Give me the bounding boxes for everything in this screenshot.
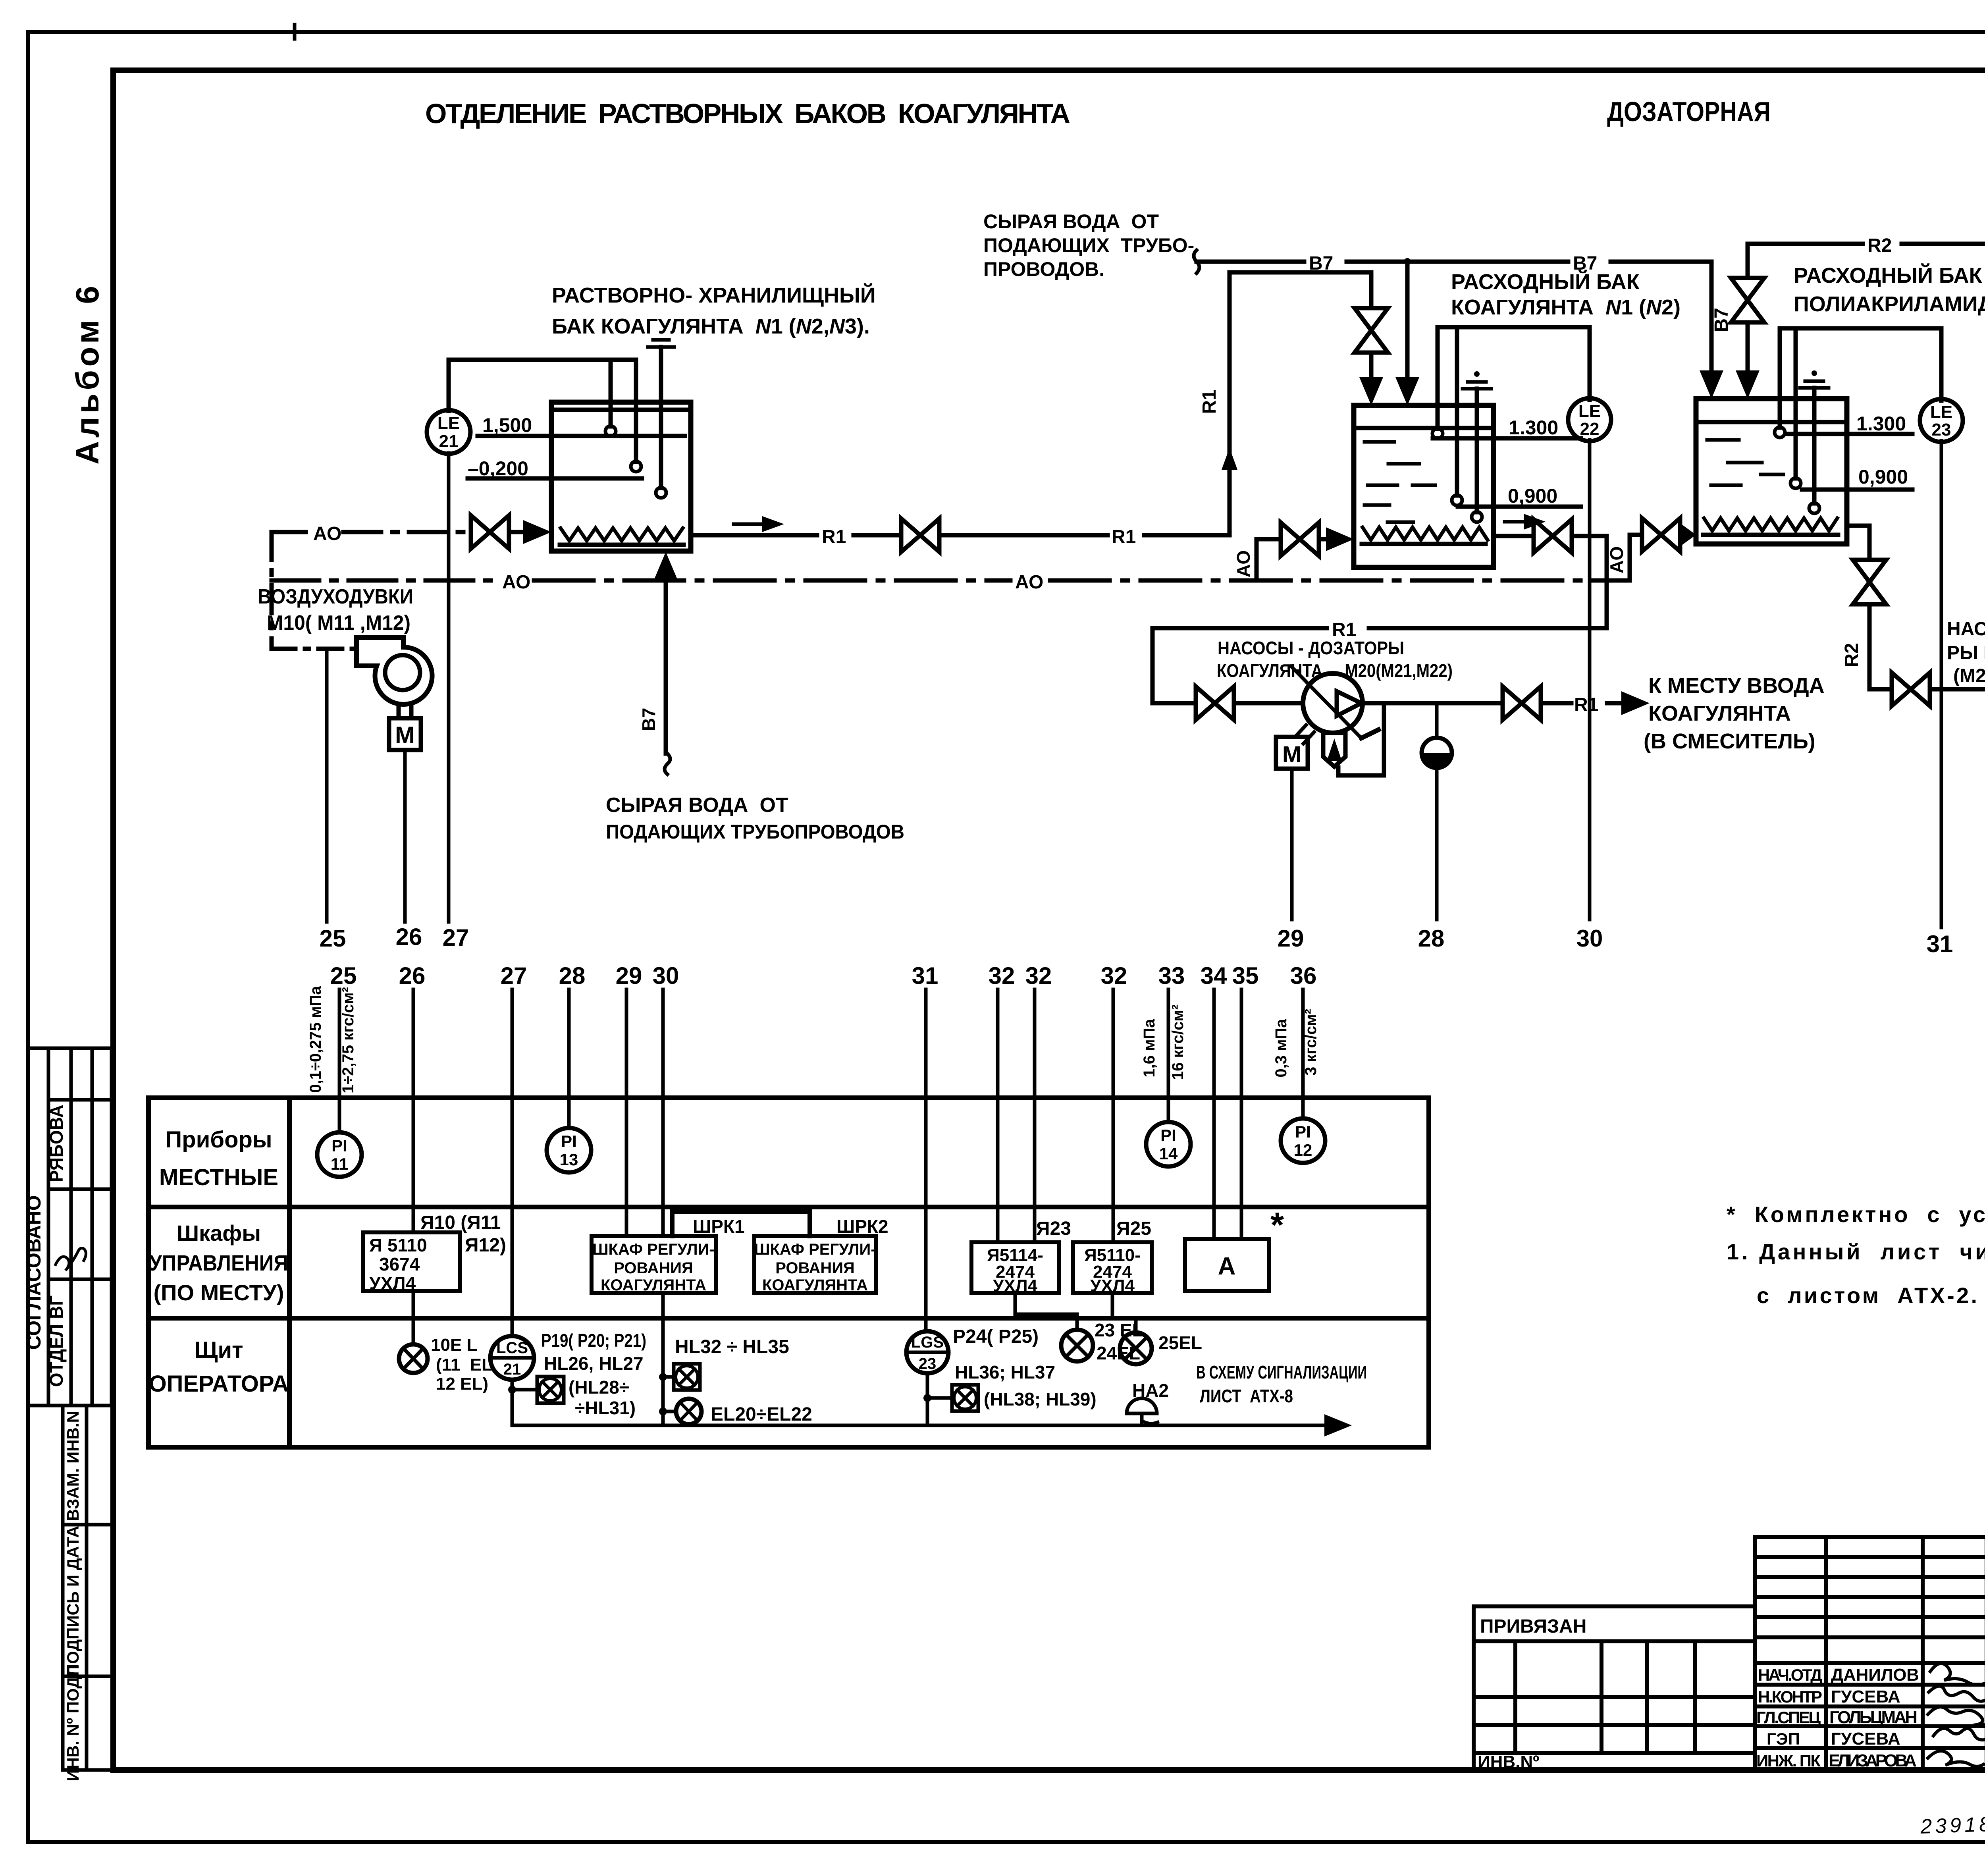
tank T1 rim line bbox=[551, 408, 691, 412]
regulator cabinet ШРК2 box bbox=[754, 1236, 876, 1293]
table frame bbox=[148, 1098, 1429, 1447]
tank T2 perforated distributor bbox=[1363, 527, 1488, 540]
svg-text:ПОДПИСЬ И ДАТА: ПОДПИСЬ И ДАТА bbox=[64, 1526, 82, 1676]
signal stub 31 bbox=[924, 989, 928, 1331]
привязан box bbox=[1474, 1606, 1755, 1770]
svg-text:23918-06: 23918-06 bbox=[1919, 1811, 1985, 1838]
svg-text:Я25: Я25 bbox=[1116, 1218, 1151, 1239]
svg-text:УПРАВЛЕНИЯ: УПРАВЛЕНИЯ bbox=[149, 1250, 288, 1275]
svg-text:СЫРАЯ ВОДА ОТ: СЫРАЯ ВОДА ОТ bbox=[983, 210, 1159, 233]
svg-text:ГЛ.СПЕЦ: ГЛ.СПЕЦ bbox=[1756, 1708, 1821, 1727]
svg-text:R1: R1 bbox=[822, 526, 846, 548]
svg-text:P24( P25): P24( P25) bbox=[953, 1326, 1039, 1347]
svg-text:Альбом 6: Альбом 6 bbox=[69, 286, 106, 465]
flow arrow bbox=[734, 523, 766, 526]
valve on tank2 top feed bbox=[1355, 308, 1388, 353]
signal stub 33 bbox=[1167, 989, 1170, 1122]
svg-text:М: М bbox=[1282, 742, 1301, 767]
tank T2 water line bbox=[1354, 426, 1494, 430]
valve R1 line bbox=[901, 519, 939, 552]
svg-text:ШРК1: ШРК1 bbox=[693, 1216, 745, 1237]
svg-text:ГУСЕВА: ГУСЕВА bbox=[1831, 1729, 1900, 1749]
svg-text:ВЗАМ. ИНВ.N: ВЗАМ. ИНВ.N bbox=[64, 1411, 82, 1521]
signal line 25 bbox=[325, 649, 329, 922]
pipe to pump M20 bbox=[1237, 701, 1303, 706]
svg-text:16 кгс/см²: 16 кгс/см² bbox=[1169, 1005, 1187, 1080]
svg-text:АО: АО bbox=[1606, 546, 1627, 573]
svg-text:ИНВ. Nº ПОДЛ: ИНВ. Nº ПОДЛ bbox=[64, 1665, 82, 1781]
signature squiggle left stamp bbox=[56, 1248, 86, 1271]
tank2 outlet pipe bbox=[1494, 534, 1530, 538]
tank T3 water line bbox=[1696, 420, 1847, 424]
level switch LCS21 bbox=[490, 1336, 534, 1380]
svg-text:ДАНИЛОВ: ДАНИЛОВ bbox=[1831, 1665, 1919, 1685]
svg-text:R1: R1 bbox=[1199, 389, 1220, 414]
junction dot bbox=[508, 1386, 516, 1394]
svg-text:РАСХОДНЫЙ БАК: РАСХОДНЫЙ БАК bbox=[1794, 263, 1983, 287]
blower motor stem bbox=[397, 706, 401, 718]
pressure tap ball 28 bbox=[1435, 703, 1439, 738]
svg-text:КОАГУЛЯНТА N1 (N2): КОАГУЛЯНТА N1 (N2) bbox=[1451, 295, 1681, 319]
AO main header (dash-dot) bbox=[272, 578, 497, 583]
signal stub 25 bbox=[338, 989, 341, 1132]
pipe R1 to riser bbox=[1144, 533, 1230, 538]
wire Я5114 to lamp 23EL bbox=[1015, 1293, 1077, 1330]
svg-text:28: 28 bbox=[1418, 925, 1445, 952]
svg-text:ШКАФ РЕГУЛИ-: ШКАФ РЕГУЛИ- bbox=[592, 1241, 714, 1258]
svg-text:29: 29 bbox=[616, 962, 642, 989]
svg-text:ПОДАЮЩИХ ТРУБОПРОВОДОВ: ПОДАЮЩИХ ТРУБОПРОВОДОВ bbox=[606, 821, 904, 843]
left margin stamp upper group box bbox=[28, 1048, 112, 1406]
valve M20 discharge bbox=[1503, 686, 1541, 720]
pump M20 leader slash bbox=[1291, 666, 1361, 738]
arrow into tank3 left bbox=[1681, 524, 1696, 546]
lamp 10EL bbox=[399, 1344, 428, 1373]
svg-text:КОАГУЛЯНТА М20(М21,М22): КОАГУЛЯНТА М20(М21,М22) bbox=[1217, 660, 1453, 681]
svg-text:EL20÷EL22: EL20÷EL22 bbox=[711, 1404, 812, 1425]
svg-text:Я23: Я23 bbox=[1036, 1218, 1071, 1239]
svg-text:ВОЗДУХОДУВКИ: ВОЗДУХОДУВКИ bbox=[258, 585, 413, 608]
svg-text:12 EL): 12 EL) bbox=[436, 1374, 488, 1394]
svg-text:КОАГУЛЯНТА: КОАГУЛЯНТА bbox=[1648, 702, 1791, 725]
svg-text:(11 EL: (11 EL bbox=[436, 1355, 492, 1375]
svg-text:1.300: 1.300 bbox=[1509, 416, 1558, 439]
vertical AO dash-dot at far left bbox=[270, 532, 274, 649]
svg-text:ОТДЕЛ ВГ: ОТДЕЛ ВГ bbox=[46, 1296, 67, 1387]
svg-text:1.300: 1.300 bbox=[1856, 413, 1906, 435]
svg-text:В7: В7 bbox=[1711, 308, 1732, 332]
svg-text:А: А bbox=[1218, 1253, 1236, 1280]
pipe R1 bbox=[942, 533, 1108, 538]
svg-text:АО: АО bbox=[1233, 550, 1254, 577]
wire LCS21 down bbox=[511, 1380, 514, 1425]
level transmitter LE21 bbox=[427, 410, 470, 454]
electrode rod1 tank2 bbox=[1436, 327, 1440, 429]
pipe B7 bbox=[1197, 260, 1304, 264]
svg-text:НАСОСЫ-ДОЗАТО-: НАСОСЫ-ДОЗАТО- bbox=[1947, 619, 1985, 640]
B7 pipe start tick bbox=[1194, 250, 1199, 273]
svg-text:22: 22 bbox=[1580, 419, 1600, 439]
signal line 28 bbox=[1435, 768, 1439, 920]
blower M10 volute bbox=[357, 638, 432, 704]
signal stub 27 bbox=[511, 989, 514, 1336]
pipe B7 vertical tank1 bbox=[664, 576, 668, 754]
gauge PI11 bbox=[317, 1132, 362, 1177]
lamp 25EL bbox=[1120, 1332, 1152, 1364]
svg-text:LE: LE bbox=[437, 413, 460, 433]
wire box to lamp 10EL bbox=[412, 1291, 415, 1344]
svg-text:27: 27 bbox=[443, 924, 469, 951]
valve tank2 outlet bbox=[1534, 519, 1572, 553]
pipe R2 header bbox=[1748, 242, 1863, 246]
arrow into tank2 left bbox=[1326, 527, 1354, 551]
level transmitter LE22 bbox=[1588, 327, 1592, 400]
svg-text:R1: R1 bbox=[1112, 526, 1136, 548]
signal line 26 bbox=[403, 750, 407, 922]
arrow into tank1 bbox=[523, 520, 551, 544]
svg-text:ЛИСТ АТХ-8: ЛИСТ АТХ-8 bbox=[1200, 1386, 1293, 1406]
gauge PI14 bbox=[1146, 1122, 1191, 1166]
svg-text:26: 26 bbox=[396, 924, 422, 950]
junction dot B7 branch bbox=[1404, 258, 1411, 265]
svg-text:* Комплектно с установкой: * Комплектно с установкой ПАА. bbox=[1727, 1202, 1985, 1227]
pump M20 motor stem bbox=[1295, 725, 1306, 737]
svg-text:ПОДАЮЩИХ ТРУБО-: ПОДАЮЩИХ ТРУБО- bbox=[983, 234, 1194, 256]
signal stub 34 bbox=[1212, 989, 1216, 1239]
box A bbox=[1185, 1239, 1269, 1291]
valve AO tank3 bbox=[1642, 518, 1680, 551]
svg-text:26: 26 bbox=[399, 962, 426, 989]
svg-text:ОТДЕЛЕНИЕ РАСТВОРНЫХ БАКОВ: ОТДЕЛЕНИЕ РАСТВОРНЫХ БАКОВ КОАГУЛЯНТА bbox=[425, 98, 1070, 129]
svg-text:КОАГУЛЯНТА: КОАГУЛЯНТА bbox=[601, 1276, 706, 1294]
level switch LGS23 bbox=[906, 1331, 948, 1373]
svg-text:32: 32 bbox=[989, 962, 1015, 989]
signal line 29 bbox=[1290, 769, 1294, 920]
svg-text:21: 21 bbox=[503, 1361, 521, 1378]
svg-text:35: 35 bbox=[1232, 962, 1259, 989]
svg-text:РЯБОВА: РЯБОВА bbox=[46, 1105, 67, 1182]
svg-text:0,900: 0,900 bbox=[1508, 485, 1557, 507]
R1 riser to tank2 top bbox=[1230, 272, 1371, 535]
electrode rod3 tank3 bbox=[1812, 388, 1817, 503]
AO branch to tank2 bbox=[1257, 539, 1278, 580]
operator bus bbox=[512, 1424, 1326, 1427]
svg-text:(ПО МЕСТУ): (ПО МЕСТУ) bbox=[154, 1280, 284, 1305]
svg-text:ГОЛЬЦМАН: ГОЛЬЦМАН bbox=[1829, 1708, 1918, 1727]
svg-text:32: 32 bbox=[1025, 962, 1052, 989]
signal line 27 from LE21 bbox=[447, 453, 451, 922]
R1 suction header bbox=[1152, 626, 1327, 630]
signal stub 30 bbox=[661, 989, 665, 1236]
pipe AO tank1 feed (dash-dot) bbox=[272, 530, 306, 534]
svg-text:ГЭП: ГЭП bbox=[1767, 1729, 1800, 1748]
motor box M pump M20 bbox=[1276, 737, 1308, 769]
svg-text:PI: PI bbox=[561, 1132, 577, 1151]
lamp HL36 square bbox=[952, 1385, 978, 1411]
svg-text:Я10 (Я11: Я10 (Я11 bbox=[420, 1212, 501, 1233]
electrode rod 2 tank1 bbox=[634, 360, 638, 462]
electrode rod2 tank2 bbox=[1455, 327, 1459, 496]
svg-text:1. Данный лист читать совме: 1. Данный лист читать совместно bbox=[1727, 1239, 1985, 1264]
gauge PI13 bbox=[547, 1128, 591, 1172]
svg-text:0,900: 0,900 bbox=[1858, 466, 1908, 488]
svg-text:Я12): Я12) bbox=[465, 1235, 506, 1256]
svg-text:25EL: 25EL bbox=[1158, 1332, 1202, 1353]
header drop to pump suction bbox=[1152, 628, 1193, 703]
bus arrow bbox=[1324, 1414, 1352, 1436]
svg-text:ДОЗАТОРНАЯ: ДОЗАТОРНАЯ bbox=[1607, 96, 1771, 127]
valve tank1 inlet bbox=[471, 515, 509, 549]
gauge PI12 bbox=[1281, 1118, 1325, 1163]
svg-text:0,3 мПа: 0,3 мПа bbox=[1272, 1019, 1290, 1078]
svg-text:(HL38; HL39): (HL38; HL39) bbox=[984, 1389, 1097, 1409]
svg-text:РОВАНИЯ: РОВАНИЯ bbox=[614, 1259, 693, 1277]
bypass loop M20 bbox=[1338, 703, 1384, 775]
pipe to R1 header bbox=[1575, 536, 1607, 628]
wire LE21 to electrode header bbox=[447, 360, 451, 411]
svg-text:25: 25 bbox=[330, 962, 357, 989]
svg-text:РАСТВОРНО- ХРАНИЛИЩНЫЙ: РАСТВОРНО- ХРАНИЛИЩНЫЙ bbox=[552, 283, 876, 307]
bracket ШРК1-ШРК2 bbox=[672, 1212, 810, 1236]
pipe into tank1 bbox=[512, 530, 528, 534]
control box Я5114-2474 bbox=[971, 1242, 1059, 1293]
svg-text:23: 23 bbox=[1932, 420, 1951, 440]
wire Я5110 to lamp 25EL bbox=[1112, 1293, 1136, 1332]
svg-text:Щит: Щит bbox=[194, 1337, 243, 1363]
blower suction line dash-dot bbox=[272, 647, 357, 651]
svg-text:РАСХОДНЫЙ БАК: РАСХОДНЫЙ БАК bbox=[1451, 270, 1640, 294]
tank T3 perforated distributor bbox=[1704, 518, 1837, 531]
B7 feed to tank1 bottom: tick bbox=[665, 754, 670, 774]
svg-text:12: 12 bbox=[1294, 1141, 1312, 1159]
tank T2 water dashes bbox=[1364, 442, 1435, 522]
svg-text:36: 36 bbox=[1290, 962, 1317, 989]
svg-text:R2: R2 bbox=[1841, 643, 1862, 667]
branch B7 to tank2 bbox=[1405, 262, 1410, 378]
signal stub 28 bbox=[567, 989, 571, 1128]
svg-text:Я 5110: Я 5110 bbox=[369, 1235, 427, 1255]
svg-text:УХЛ4: УХЛ4 bbox=[369, 1273, 416, 1294]
svg-text:13: 13 bbox=[560, 1150, 578, 1169]
svg-text:31: 31 bbox=[912, 962, 939, 989]
electrode rod1 tank3 bbox=[1778, 328, 1782, 428]
signal stub 32c bbox=[1112, 989, 1115, 1242]
electrode rod 3 tank1 bbox=[659, 347, 663, 488]
pipe B7 bbox=[1347, 260, 1568, 264]
svg-text:ОПЕРАТОРА: ОПЕРАТОРА bbox=[149, 1371, 289, 1397]
arrow into tank2 top B7 bbox=[1395, 377, 1419, 405]
electrode rod2 tank3 bbox=[1794, 328, 1798, 478]
arrow R1 to mixer bbox=[1621, 691, 1650, 715]
flow arrow up on riser bbox=[1228, 467, 1231, 492]
fold mark top border bbox=[293, 25, 297, 39]
R2 feed with valve into tank3 bbox=[1746, 244, 1750, 278]
svg-text:R1: R1 bbox=[1574, 694, 1598, 715]
signal stub 35 bbox=[1240, 989, 1243, 1239]
svg-text:ИНЖ. ПК: ИНЖ. ПК bbox=[1756, 1751, 1821, 1770]
svg-text:Шкафы: Шкафы bbox=[177, 1220, 261, 1246]
svg-text:LE: LE bbox=[1930, 402, 1952, 422]
arrow into tank3 top R2 bbox=[1736, 370, 1760, 399]
svg-text:(М24, М25): (М24, М25) bbox=[1953, 665, 1985, 686]
svg-text:СЫРАЯ ВОДА ОТ: СЫРАЯ ВОДА ОТ bbox=[606, 794, 788, 817]
svg-text:М: М bbox=[395, 722, 415, 748]
svg-text:P19( P20; P21): P19( P20; P21) bbox=[541, 1330, 646, 1351]
svg-text:МЕСТНЫЕ: МЕСТНЫЕ bbox=[159, 1165, 278, 1190]
lamp EL20 bbox=[676, 1399, 701, 1424]
svg-text:33: 33 bbox=[1158, 962, 1185, 989]
svg-text:LE: LE bbox=[1578, 401, 1601, 421]
svg-text:34: 34 bbox=[1201, 962, 1227, 989]
blower motor box M bbox=[389, 718, 421, 750]
svg-text:HL36; HL37: HL36; HL37 bbox=[955, 1362, 1055, 1382]
control box Я5110-2474 bbox=[1073, 1242, 1152, 1293]
tank T3 body bbox=[1696, 399, 1847, 544]
svg-text:АО: АО bbox=[1015, 572, 1043, 593]
tank T3 water dashes bbox=[1707, 440, 1783, 485]
pipe R1 out bbox=[1544, 701, 1571, 706]
pipe to tank2 bbox=[1369, 353, 1374, 378]
svg-text:1÷2,75 кгс/см²: 1÷2,75 кгс/см² bbox=[339, 987, 357, 1093]
svg-text:ПРОВОДОВ.: ПРОВОДОВ. bbox=[983, 258, 1104, 280]
pipe AO tank1 feed continued bbox=[343, 530, 468, 534]
pump M20 triangle bbox=[1337, 691, 1361, 716]
svg-text:ПРИВЯЗАН: ПРИВЯЗАН bbox=[1480, 1616, 1586, 1637]
svg-text:РЫ ПАА М23,: РЫ ПАА М23, bbox=[1947, 642, 1985, 663]
discharge pipe M20 bbox=[1363, 701, 1499, 706]
svg-text:КОАГУЛЯНТА: КОАГУЛЯНТА bbox=[762, 1276, 868, 1294]
svg-text:РОВАНИЯ: РОВАНИЯ bbox=[775, 1259, 854, 1277]
svg-text:28: 28 bbox=[559, 962, 586, 989]
svg-text:0,1÷0,275 мПа: 0,1÷0,275 мПа bbox=[307, 986, 324, 1093]
signal stub 32a bbox=[996, 989, 1000, 1242]
electrode header tank3 bbox=[1780, 326, 1941, 331]
svg-text:14: 14 bbox=[1159, 1144, 1178, 1163]
dosing head symbol M20 bbox=[1323, 733, 1345, 767]
svg-text:К МЕСТУ ВВОДА: К МЕСТУ ВВОДА bbox=[1648, 674, 1825, 698]
svg-text:АО: АО bbox=[502, 572, 530, 593]
electrode rod 1 tank1 bbox=[609, 360, 613, 426]
svg-text:PI: PI bbox=[1295, 1122, 1311, 1141]
control box Я5110 3674 bbox=[363, 1232, 460, 1291]
pump M20 circle bbox=[1303, 673, 1363, 733]
tank3 outlet to R2 bbox=[1847, 526, 1869, 560]
svg-text:В СХЕМУ СИГНАЛИЗАЦИИ: В СХЕМУ СИГНАЛИЗАЦИИ bbox=[1196, 1362, 1367, 1382]
svg-text:30: 30 bbox=[1576, 925, 1603, 952]
valve R2 vertical bbox=[1853, 560, 1886, 604]
svg-text:27: 27 bbox=[501, 962, 527, 989]
signal stub 26 bbox=[412, 989, 415, 1232]
arrow into tank2 top bbox=[1359, 377, 1383, 405]
svg-text:ЕЛИЗАРОВА: ЕЛИЗАРОВА bbox=[1829, 1751, 1917, 1770]
electrode rod3 tank2 bbox=[1475, 389, 1479, 512]
svg-text:М10( М11 ,М12): М10( М11 ,М12) bbox=[267, 611, 410, 634]
arrow into tank3 top B7 bbox=[1700, 370, 1723, 399]
svg-text:32: 32 bbox=[1101, 962, 1127, 989]
ground symbol tank3 bbox=[1812, 370, 1817, 376]
level transmitter LE23 bbox=[1939, 328, 1944, 401]
valve M20 suction bbox=[1196, 686, 1234, 720]
valve R2 tank3 feed bbox=[1731, 278, 1764, 322]
signal stub 29 bbox=[625, 989, 628, 1236]
svg-text:29: 29 bbox=[1278, 925, 1304, 952]
wire to lamp HL26 bbox=[512, 1388, 537, 1392]
wire LGS23 down bbox=[926, 1373, 929, 1425]
valve AO tank2 bbox=[1281, 523, 1319, 556]
valve PAA suction bbox=[1892, 673, 1930, 706]
electrode header tank1 bbox=[449, 358, 636, 362]
svg-text:LCS: LCS bbox=[496, 1339, 528, 1357]
svg-text:(В СМЕСИТЕЛЬ): (В СМЕСИТЕЛЬ) bbox=[1644, 729, 1815, 753]
svg-text:LGS: LGS bbox=[911, 1334, 944, 1351]
svg-text:PI: PI bbox=[1160, 1126, 1176, 1145]
svg-text:Приборы: Приборы bbox=[166, 1127, 272, 1153]
horn HA2 bbox=[1127, 1398, 1157, 1413]
pipe B7 to tank3 bbox=[1611, 262, 1711, 373]
svg-text:1,500: 1,500 bbox=[482, 414, 532, 436]
arrow into tank1 bottom bbox=[654, 552, 678, 580]
pump M20 adjust arrow tick bbox=[1361, 730, 1378, 738]
svg-text:ГУСЕВА: ГУСЕВА bbox=[1831, 1687, 1900, 1706]
svg-text:В7: В7 bbox=[638, 708, 659, 731]
regulator cabinet ШРК1 bbox=[592, 1236, 716, 1293]
lamp 23EL bbox=[1061, 1330, 1093, 1361]
svg-text:25: 25 bbox=[320, 925, 346, 952]
svg-text:HL32 ÷ HL35: HL32 ÷ HL35 bbox=[675, 1336, 789, 1357]
ground symbol tank1 bbox=[653, 338, 669, 342]
svg-text:ИНВ.Nº: ИНВ.Nº bbox=[1478, 1752, 1539, 1772]
flow arrow tank2 outlet bbox=[1505, 520, 1528, 524]
tank T1 body bbox=[551, 402, 691, 551]
svg-text:НАСОСЫ - ДОЗАТОРЫ: НАСОСЫ - ДОЗАТОРЫ bbox=[1218, 638, 1404, 658]
left margin stamp lower group box bbox=[63, 1406, 113, 1770]
pipe into tank2 left bbox=[1322, 537, 1331, 542]
svg-text:21: 21 bbox=[439, 432, 459, 451]
tank T2 body bbox=[1354, 405, 1494, 567]
wire to lamp HL36 bbox=[927, 1396, 952, 1400]
electrode header tank2 bbox=[1438, 325, 1590, 330]
svg-text:с листом АТХ-2.: с листом АТХ-2. bbox=[1757, 1283, 1977, 1308]
wire шкаф1 to lamps bbox=[661, 1293, 665, 1425]
svg-text:АО: АО bbox=[313, 523, 341, 544]
svg-text:30: 30 bbox=[653, 962, 679, 989]
svg-text:СОГЛАСОВАНО: СОГЛАСОВАНО bbox=[23, 1195, 45, 1350]
signal line 30 from LE22 bbox=[1588, 440, 1592, 920]
svg-text:PI: PI bbox=[331, 1136, 347, 1155]
signatures squiggles bbox=[1928, 1664, 1985, 1766]
svg-text:(HL28÷: (HL28÷ bbox=[569, 1377, 629, 1398]
pump PAA suction pipe bbox=[1869, 687, 1889, 692]
signal line 31 bbox=[1940, 441, 1943, 927]
svg-text:10E L: 10E L bbox=[431, 1335, 477, 1355]
AO branch to tank3 bbox=[1630, 535, 1639, 580]
svg-text:3 кгс/см²: 3 кгс/см² bbox=[1302, 1009, 1320, 1076]
pipe R1 bbox=[854, 533, 898, 538]
svg-text:3674: 3674 bbox=[379, 1254, 420, 1274]
svg-text:НА2: НА2 bbox=[1132, 1380, 1169, 1401]
lamp HL32 square bbox=[674, 1364, 700, 1390]
svg-text:В7: В7 bbox=[1309, 253, 1333, 274]
main title block staff grid bbox=[1755, 1537, 1985, 1770]
ground symbol tank2 bbox=[1474, 371, 1480, 377]
svg-text:ПОЛИАКРИЛАМИДА N1 (N2): ПОЛИАКРИЛАМИДА N1 (N2) bbox=[1794, 292, 1985, 316]
svg-text:Н.КОНТР: Н.КОНТР bbox=[1758, 1687, 1822, 1706]
signal stub 32b bbox=[1033, 989, 1037, 1242]
pipe R1 out 2 bbox=[1607, 701, 1623, 706]
svg-text:ШРК2: ШРК2 bbox=[836, 1216, 888, 1237]
tank T1 perforated distributor bbox=[561, 528, 683, 541]
svg-text:1,6 мПа: 1,6 мПа bbox=[1141, 1019, 1158, 1078]
